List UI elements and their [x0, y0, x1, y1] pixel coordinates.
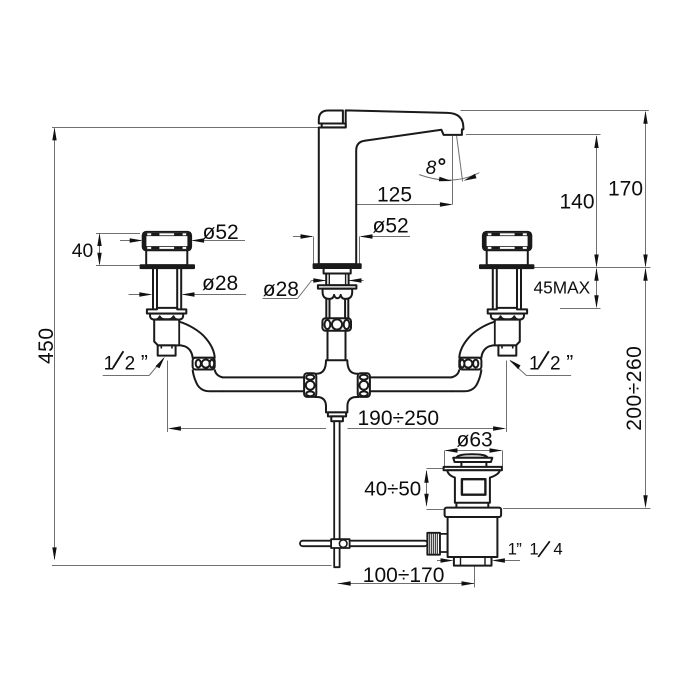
- drain plug dome: [456, 454, 488, 458]
- 45MAX arrows: [594, 268, 598, 281]
- svg-text:125: 125: [377, 183, 412, 206]
- spout cap lip: [322, 124, 346, 128]
- extension line bottom left (rod bottom to 450): [52, 565, 332, 567]
- 170 arrows: [643, 111, 647, 124]
- knurled adjuster: [427, 533, 440, 555]
- drain plug rim: [453, 458, 492, 462]
- svg-text:450: 450: [35, 327, 58, 364]
- 450 arrows: [52, 127, 56, 140]
- cross union nut right: [358, 373, 370, 397]
- dim 200-260 vertical: [645, 269, 647, 506]
- svg-text:”: ”: [141, 352, 148, 375]
- horizontal lever rod: [300, 541, 427, 547]
- 100-170 arrows: [338, 581, 351, 585]
- svg-text:1: 1: [529, 354, 540, 375]
- drain mounting flange: [444, 467, 502, 470]
- slash of right 1/2 label: [538, 351, 549, 368]
- svg-text:ø52: ø52: [373, 214, 409, 237]
- deck extension line right: [534, 267, 651, 269]
- overflow window: [462, 479, 486, 495]
- svg-text:ø28: ø28: [263, 278, 299, 301]
- cross body: [315, 360, 359, 412]
- pop-up vertical rod: [334, 421, 339, 567]
- leader 1/2 left: underline + diagonal: [103, 375, 150, 377]
- dim line o52 center spout base: [293, 236, 312, 238]
- 8deg: vertical reference line: [452, 136, 454, 205]
- dim 140 vertical: [596, 136, 598, 266]
- ext line spout top to 170: [461, 110, 649, 112]
- svg-text:2: 2: [550, 354, 561, 375]
- dim 125 line: [340, 204, 452, 206]
- 140 arrows: [594, 135, 598, 148]
- left knob bands: [144, 233, 190, 249]
- fitting step under cross: [328, 412, 346, 416]
- 190-250 arrows: [168, 426, 181, 430]
- svg-text:”: ”: [566, 352, 573, 375]
- svg-text:ø28: ø28: [202, 272, 238, 295]
- dim 100-170 line: [338, 583, 475, 585]
- left 1/2 inlet fitting: [158, 345, 176, 355]
- o52 center arrows: [301, 234, 314, 238]
- coupling nut under spout: [322, 318, 351, 331]
- 125 arrows: [338, 202, 351, 206]
- ext lines o52 center: [313, 237, 315, 264]
- ext lines 40-50: [427, 468, 444, 470]
- horizontal pipe right: [368, 377, 452, 391]
- dim line o28 center + bent leader: [311, 280, 325, 282]
- left handle flange: [141, 265, 194, 268]
- drain funnel body: [447, 470, 500, 502]
- drain tailpiece: [454, 557, 492, 566]
- ext lines for 40: [96, 233, 140, 235]
- spout back cap: [319, 111, 343, 124]
- funnel step ticks: [456, 503, 488, 508]
- right valve nut bumps: [491, 314, 524, 320]
- svg-text:1: 1: [104, 354, 115, 375]
- drain lower flange: [445, 508, 502, 517]
- right valve inner line: [494, 322, 496, 345]
- body block under flange: [324, 268, 351, 274]
- ext line drain lower flange to 200-260: [503, 508, 651, 510]
- svg-text:4: 4: [553, 539, 562, 558]
- left handle skirt: [146, 250, 187, 265]
- svg-text:”: ”: [516, 539, 522, 558]
- svg-text:40: 40: [72, 241, 93, 262]
- left valve nut bumps: [150, 314, 183, 320]
- o52 left handle arrows: [130, 238, 143, 242]
- left valve body: [154, 320, 215, 358]
- right elbow lower bend: [452, 370, 481, 392]
- horizontal pipe left: [222, 377, 306, 391]
- leader 1-1/4: left arrow line and right line: [437, 560, 449, 562]
- clamp screw circle: [339, 540, 347, 548]
- drain plug neck: [461, 462, 486, 467]
- dim 40 vertical line: [99, 235, 101, 265]
- svg-text:45MAX: 45MAX: [534, 278, 591, 298]
- dim line o28 left handle: [129, 294, 151, 296]
- svg-text:8: 8: [426, 158, 437, 179]
- rod clamp block: [331, 539, 350, 548]
- 200-260 arrows: [643, 268, 647, 281]
- svg-text:2: 2: [125, 354, 136, 375]
- left elbow lower bend: [193, 370, 222, 392]
- right elbow union nut: [459, 358, 481, 370]
- ext line 190-250 left (under left valve inlet): [167, 361, 169, 433]
- right valve stem double lines: [493, 268, 521, 309]
- 1-1/4 arrows: [441, 558, 454, 562]
- 8deg: slanted reference line: [457, 136, 463, 182]
- svg-text:170: 170: [608, 178, 643, 201]
- 40-50 arrows: [424, 470, 428, 483]
- cross union nut left: [304, 373, 316, 397]
- right handle flange: [480, 265, 533, 268]
- 40 arrows: [97, 233, 101, 246]
- locking nut (bumps): [323, 289, 353, 299]
- dim 190-250 line: [170, 428, 326, 430]
- leader 1/2 right: underline + diagonal: [526, 375, 571, 377]
- ext line 45MAX bottom: [560, 308, 601, 310]
- right valve top flange: [488, 308, 527, 314]
- spout body outline: [319, 110, 464, 264]
- left valve stem double lines: [153, 268, 181, 309]
- ext line 190-250 right (under right valve inlet): [506, 361, 508, 433]
- left elbow union nut: [193, 358, 215, 370]
- left handle knob: [143, 232, 191, 250]
- ext line 100-170 right (tailpiece centre): [474, 566, 476, 588]
- right 1/2 inlet fitting: [498, 345, 516, 355]
- extension line top left (spout cap to 450): [52, 127, 319, 129]
- spout base flange: [314, 264, 361, 268]
- threaded shank o28: [326, 274, 348, 286]
- dim 45MAX vertical: [596, 269, 598, 307]
- svg-text:140: 140: [560, 191, 595, 214]
- svg-text:1: 1: [529, 539, 538, 558]
- right knob bands: [484, 233, 530, 249]
- 1/2 leader arrows: [156, 357, 165, 369]
- right valve body: [459, 320, 520, 358]
- supply shank double lines: [326, 299, 348, 319]
- dim o63 line: [446, 450, 502, 452]
- slash of 1-1/4 label: [538, 541, 550, 557]
- ext line aerator to 140: [466, 134, 601, 136]
- o28 center arrows: [313, 278, 326, 282]
- right handle skirt: [487, 250, 528, 265]
- svg-text:ø63: ø63: [457, 428, 493, 451]
- svg-text:ø52: ø52: [203, 221, 239, 244]
- center supply pipe: [328, 330, 346, 360]
- adjuster sleeve: [440, 534, 448, 552]
- dim 40-50 vertical: [426, 471, 428, 506]
- right handle knob: [483, 232, 531, 250]
- dim 170 vertical: [645, 112, 647, 266]
- 8deg: arc: [419, 173, 479, 180]
- svg-text:100÷170: 100÷170: [363, 564, 445, 587]
- left valve top flange: [147, 308, 186, 314]
- svg-text:40÷50: 40÷50: [364, 477, 421, 500]
- left valve inner line: [178, 322, 180, 345]
- o63 arrows: [445, 448, 458, 452]
- 8deg arc arrows: [439, 177, 452, 181]
- o28 left handle arrows: [139, 292, 152, 296]
- dim line o52 left handle: [120, 240, 141, 242]
- ext lines o63: [444, 451, 446, 468]
- dim 450 vertical line: [54, 129, 56, 560]
- slash of left 1/2 label: [113, 351, 124, 368]
- ext line 125 left (faucet centre): [336, 202, 338, 209]
- drain housing: [448, 517, 498, 557]
- svg-text:200÷260: 200÷260: [623, 346, 646, 431]
- thin flange under shank: [318, 285, 357, 288]
- svg-text:190÷250: 190÷250: [358, 407, 440, 430]
